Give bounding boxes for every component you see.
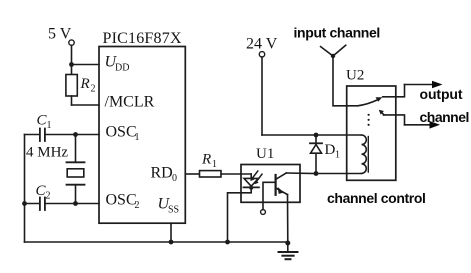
wire collector to D1 node [286,172,316,175]
wire 24V terminal down [261,57,263,135]
svg-text:1: 1 [135,132,140,143]
wire R1 to U1 LED [221,173,251,175]
svg-text:2: 2 [46,191,51,202]
svg-text:U1: U1 [256,146,274,162]
label U1 [256,146,274,162]
junction dot crystal top [73,132,78,137]
relay U2 body [347,86,396,180]
diode D1 [310,135,322,174]
U1 base terminal circle [261,210,266,215]
wire 5V terminal to VDD node [71,45,73,64]
5 V supply terminal [69,40,74,45]
svg-text:24 V: 24 V [246,35,278,52]
wire RD0 pin to R1 [185,173,199,175]
svg-text:DD: DD [115,63,129,74]
pin label /MCLR [105,94,155,111]
junction dot LED cathode [249,186,253,190]
label 24 V [246,35,278,52]
svg-text:OSC: OSC [106,124,137,141]
crystal 4MHz [67,135,85,204]
svg-text:/MCLR: /MCLR [105,94,155,111]
label R1 [201,152,217,171]
junction dot D1 bottom [314,171,319,176]
resistor R2 [66,65,77,106]
svg-text:0: 0 [172,173,177,184]
junction dot D1 top [314,133,319,138]
wire D1 node to coil bottom [316,173,362,175]
label 4 MHz [26,145,68,161]
relay contact 2 [379,110,405,125]
junction dot USS on rail [169,240,174,245]
svg-text:1: 1 [212,159,217,170]
svg-text:RD: RD [151,165,173,182]
svg-text:channel: channel [420,109,469,125]
junction dot LED return on rail [225,240,230,245]
pin label USS [158,196,180,216]
svg-text:1: 1 [47,120,52,131]
wire left rail to C1 [25,134,40,136]
wire left rail to C2 [25,203,40,205]
junction dot VDD node [69,62,74,67]
resistor R1 [200,171,222,177]
wire LED cathode return to ground rail [228,187,252,242]
U1 LED [244,171,263,187]
label 5 V [48,25,72,42]
svg-text:2: 2 [135,200,140,211]
capacitor C2 [40,198,45,211]
wire C2 to OSC2 pin [46,203,99,205]
svg-text:U2: U2 [346,68,364,84]
wire to output arrow [405,84,435,86]
label C2 [36,183,51,202]
pin label RD0 [151,165,178,185]
svg-text:R: R [80,76,90,92]
wire R2 to /MCLR pin [72,104,100,106]
label D1 [325,142,341,161]
junction dot ground node [285,241,290,246]
svg-text:input channel: input channel [294,25,380,41]
label input channel [294,25,380,41]
label PIC16F87X [103,30,182,47]
svg-text:R: R [201,152,211,168]
wire antenna to switch common [333,56,358,106]
wire 24V rail to relay coil [262,134,362,136]
U1 phototransistor Q [276,173,288,195]
svg-text:PIC16F87X: PIC16F87X [103,30,182,47]
junction dot left rail at C2 [22,201,27,206]
wire VDD node to UDD pin [72,64,100,66]
output arrow [432,81,443,89]
relay contact 1 [383,85,405,97]
relay switch blade [358,97,383,106]
more contacts ellipsis [368,114,370,126]
svg-text:D: D [325,142,336,158]
wire bottom ground rail [25,241,289,243]
wire emitter to ground node [287,195,289,243]
junction dot crystal bottom [73,201,78,206]
svg-text:2: 2 [91,84,96,95]
24 V supply terminal [259,52,264,57]
ground symbol [279,243,298,259]
svg-text:1: 1 [335,150,340,161]
channel arrow [430,121,441,129]
label output [420,86,463,102]
pin label UDD [105,54,130,74]
label U2 [346,68,364,84]
IC U3 PIC16F87X body [99,47,185,224]
svg-text:OSC: OSC [106,192,137,209]
svg-text:5 V: 5 V [48,25,72,42]
pin label OSC1 [106,124,140,144]
pin label OSC2 [106,192,140,212]
label C1 [37,113,52,132]
svg-text:channel control: channel control [327,190,426,206]
label channel control [327,190,426,206]
label channel [420,109,469,125]
wire to channel arrow [405,124,432,126]
wire USS pin to ground rail [170,223,172,242]
optocoupler U1 body [241,165,300,203]
svg-text:SS: SS [168,205,179,216]
svg-text:4 MHz: 4 MHz [26,145,68,161]
capacitor C1 [40,129,45,142]
antenna input [321,45,346,58]
wire left rail [24,135,26,243]
wire C1 to OSC1 pin [46,134,99,136]
svg-text:output: output [420,86,463,102]
label R2 [80,76,96,95]
relay coil L1 [362,135,369,173]
wire base to base terminal [263,182,276,209]
